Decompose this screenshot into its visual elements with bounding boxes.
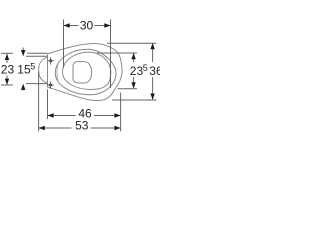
dimension 23.5 right <box>97 53 148 89</box>
svg-text:23: 23 <box>1 63 15 77</box>
svg-text:15: 15 <box>17 63 31 77</box>
dimension 36 right <box>107 43 163 100</box>
rim ring outer <box>55 49 116 94</box>
toilet outline <box>48 44 123 101</box>
svg-text:5: 5 <box>143 63 148 73</box>
dimension 23 left <box>1 53 48 85</box>
svg-text:53: 53 <box>75 118 89 132</box>
dimension 53 bottom <box>39 72 121 133</box>
dimension 46 bottom <box>48 90 121 132</box>
bolt hole bottom <box>47 81 54 89</box>
water area <box>73 62 92 83</box>
dimension 30 top <box>64 19 111 89</box>
bolt hole top <box>47 57 54 65</box>
svg-text:36: 36 <box>149 64 160 78</box>
rim ring inner <box>63 52 111 89</box>
flush housing arc <box>39 57 48 83</box>
rim ring outer double line <box>57 61 60 84</box>
dimension 15.5 left <box>17 48 47 91</box>
svg-text:5: 5 <box>30 61 35 71</box>
svg-text:23: 23 <box>130 64 144 78</box>
svg-text:30: 30 <box>80 19 94 33</box>
